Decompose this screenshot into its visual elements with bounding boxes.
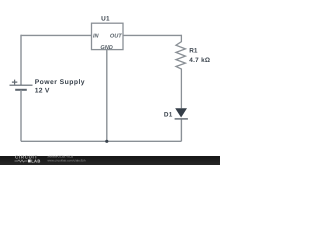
- footer watermark bar: [0, 156, 220, 165]
- battery V1 positive plate: [10, 84, 33, 86]
- svg-text:Power Supply: Power Supply: [35, 79, 85, 86]
- wire: bottom rail: [21, 140, 181, 142]
- resistor R1 zigzag: [176, 35, 185, 109]
- svg-text:D1: D1: [164, 111, 173, 118]
- wire: left vertical lower (battery - to bottom rail): [20, 90, 22, 142]
- junction node (GND rail junction dot): [105, 140, 108, 143]
- diode D1 triangle (anode): [175, 108, 187, 117]
- svg-text:www.circuitlab.com/c/abc8zh: www.circuitlab.com/c/abc8zh: [48, 158, 86, 162]
- wire: left vertical upper (corner down to battery +): [20, 35, 22, 85]
- CircuitLab logo zigzag: [15, 160, 28, 162]
- diode D1 cathode bar: [175, 118, 188, 120]
- svg-text:12 V: 12 V: [35, 87, 50, 94]
- svg-text:U1: U1: [101, 15, 110, 22]
- wire: U1 OUT to right branch: [123, 34, 181, 36]
- svg-text:R1: R1: [189, 48, 198, 55]
- wire: diode cathode to bottom rail: [180, 120, 182, 142]
- battery V1 negative plate: [15, 89, 27, 91]
- svg-text:IN: IN: [93, 34, 100, 40]
- svg-text:OUT: OUT: [110, 34, 122, 40]
- svg-text:4.7 kΩ: 4.7 kΩ: [189, 57, 210, 64]
- op-amp box U1 (voltage regulator): [92, 23, 124, 49]
- CircuitLab logo block: [28, 160, 31, 163]
- svg-text:LAB: LAB: [31, 159, 40, 164]
- wire: U1 GND pin down to bottom rail: [106, 50, 108, 142]
- wire: left horizontal from battery branch to U1 IN pin: [21, 34, 92, 36]
- battery plus sign: [12, 80, 17, 85]
